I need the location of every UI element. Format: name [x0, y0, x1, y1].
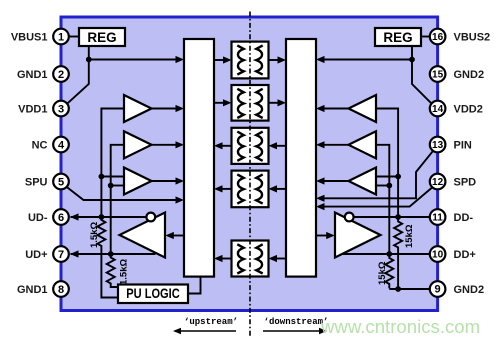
wire DD+ sense line B2 — [376, 145, 389, 254]
wire buffer A3 out to left bar — [152, 177, 185, 184]
PU LOGIC block — [118, 285, 188, 304]
transformer T5 — [232, 241, 269, 277]
resistor R1 1.5k — [97, 217, 118, 298]
wire buffer A2 out to left bar — [152, 141, 185, 148]
wire UD- sense line A — [101, 109, 124, 218]
receiver B1 — [349, 95, 377, 122]
svg-text:SPD: SPD — [454, 177, 477, 189]
pin 6 — [53, 209, 69, 225]
svg-text:1: 1 — [58, 32, 64, 44]
node B3 in2 junction — [386, 183, 392, 189]
wire left bar to driver A4 — [165, 232, 184, 239]
wire buffer A3 input 1 — [101, 176, 124, 178]
svg-text:15kΩ: 15kΩ — [404, 224, 415, 248]
receiver B2 — [349, 131, 377, 158]
pin 15 — [430, 66, 446, 82]
node UD+ junction — [108, 251, 114, 257]
svg-text:VBUS2: VBUS2 — [454, 32, 491, 44]
svg-text:15: 15 — [432, 70, 444, 81]
pin 7 — [53, 246, 69, 262]
regulator REG1 — [69, 28, 125, 46]
wire GND2 to resistors — [389, 288, 430, 290]
encoder/decoder bar right — [286, 39, 316, 277]
wire REG2 to right bar — [316, 56, 412, 63]
node UD- junction — [99, 214, 105, 220]
svg-text:NC: NC — [32, 140, 48, 152]
pin 10 — [430, 246, 446, 262]
resistor R2 1.5k — [107, 254, 118, 287]
svg-text:VDD2: VDD2 — [454, 104, 483, 116]
svg-text:REG: REG — [87, 30, 116, 45]
wire right bar to driver B4 — [316, 232, 335, 239]
node B3 in1 junction — [395, 174, 401, 180]
node GND2 junction — [395, 286, 401, 292]
svg-text:VDD1: VDD1 — [18, 104, 47, 116]
wire REG1 stem — [67, 46, 89, 104]
wire buffer A1 out to left bar — [152, 105, 185, 112]
svg-text:16: 16 — [432, 32, 444, 43]
svg-text:2: 2 — [58, 69, 64, 81]
svg-text:8: 8 — [58, 284, 64, 296]
wire buffer A3 input 2 — [111, 185, 124, 187]
svg-text:‘downstream’: ‘downstream’ — [264, 317, 329, 327]
wire right bar to transformer T3 — [269, 142, 287, 149]
pin 11 — [430, 209, 446, 225]
buffer A3 — [124, 168, 152, 195]
svg-text:www.cntronics.com: www.cntronics.com — [320, 316, 480, 337]
buffer A1 — [124, 95, 152, 122]
wire DD- output — [354, 216, 430, 218]
pin 12 — [430, 174, 446, 190]
transformer T4 — [232, 171, 269, 208]
resistor R4 15k — [385, 254, 393, 288]
svg-text:6: 6 — [58, 212, 64, 224]
receiver B3 — [349, 168, 377, 195]
svg-text:VBUS1: VBUS1 — [11, 32, 48, 44]
wire left bar to transformer T1 — [214, 56, 232, 63]
transformer T1 — [232, 42, 269, 79]
svg-text:GND1: GND1 — [17, 69, 48, 81]
pin 3 — [53, 101, 69, 117]
wire SPD to right bar — [316, 187, 433, 211]
isolation barrier dashed line — [249, 12, 251, 337]
svg-text:DD+: DD+ — [454, 249, 476, 261]
wire PIN to right bar — [316, 150, 434, 202]
node A3 in2 junction — [108, 183, 114, 189]
svg-text:13: 13 — [432, 140, 444, 151]
svg-text:3: 3 — [58, 104, 64, 116]
wire transformer T1 to right bar — [269, 56, 287, 63]
node REG2 junction — [409, 57, 415, 63]
svg-text:SPU: SPU — [25, 177, 48, 189]
svg-text:11: 11 — [432, 213, 443, 224]
pin 1 — [53, 29, 69, 45]
transformer T2 — [232, 85, 269, 121]
wire right bar to transformer T4 — [269, 185, 287, 192]
arrow downstream — [263, 328, 327, 334]
pin 2 — [53, 66, 69, 82]
wire REG2 stem — [412, 46, 432, 104]
svg-text:UD-: UD- — [28, 212, 48, 224]
svg-text:15kΩ: 15kΩ — [377, 261, 388, 285]
svg-text:PIN: PIN — [454, 140, 472, 152]
wire right bar to transformer T5 — [269, 255, 287, 262]
driver B4 bubble — [345, 213, 354, 222]
svg-text:GND1: GND1 — [17, 284, 48, 296]
svg-text:1.5kΩ: 1.5kΩ — [89, 222, 100, 248]
arrow upstream — [173, 328, 236, 334]
wire receiver B1 out to right bar — [316, 105, 349, 112]
pin 9 — [430, 281, 446, 297]
wire left bar to transformer T2 — [214, 99, 232, 106]
wire transformer T5 to left bar — [214, 255, 232, 262]
wire UD+ output — [70, 250, 156, 257]
driver A4 inverting — [120, 213, 166, 258]
svg-text:PU LOGIC: PU LOGIC — [126, 286, 180, 301]
node DD- junction — [395, 214, 401, 220]
svg-text:12: 12 — [432, 177, 444, 188]
svg-text:GND2: GND2 — [454, 284, 485, 296]
wire receiver B3 out to right bar — [316, 177, 349, 184]
driver B4 inverting — [335, 213, 381, 258]
svg-text:4: 4 — [58, 140, 65, 152]
encoder/decoder bar left — [184, 39, 214, 277]
svg-text:GND2: GND2 — [454, 69, 485, 81]
transformer T3 — [232, 128, 269, 164]
svg-text:7: 7 — [58, 249, 64, 261]
node DD+ junction — [386, 251, 392, 257]
pin 13 — [430, 137, 446, 153]
svg-text:1.5kΩ: 1.5kΩ — [119, 259, 130, 285]
svg-text:9: 9 — [435, 284, 441, 296]
wire transformer T3 to left bar — [214, 142, 232, 149]
node A3 in1 junction — [99, 174, 105, 180]
svg-text:10: 10 — [432, 250, 444, 261]
svg-text:‘upstream’: ‘upstream’ — [184, 317, 238, 327]
wire DD+ output — [342, 253, 430, 255]
wire REG1 to left bar — [89, 56, 184, 63]
wire UD+ sense line B — [111, 145, 124, 254]
IC body U1 — [61, 17, 438, 311]
wire receiver B3 input 1 — [376, 176, 398, 178]
pin 16 — [430, 29, 446, 45]
svg-text:REG: REG — [383, 30, 412, 45]
svg-text:DD-: DD- — [454, 212, 474, 224]
regulator REG2 — [375, 28, 430, 46]
wire SPU to left bar — [66, 187, 184, 204]
svg-text:UD+: UD+ — [25, 249, 47, 261]
wire PU LOGIC to left bar — [188, 277, 201, 294]
wire receiver B2 out to right bar — [316, 141, 349, 148]
wire transformer T4 to left bar — [214, 185, 232, 192]
pin 4 — [53, 137, 69, 153]
resistor R3 15k — [394, 217, 402, 289]
wire receiver B3 input 2 — [376, 185, 389, 187]
wire DD- sense line A2 — [376, 109, 398, 218]
pin 14 — [430, 101, 446, 117]
pin 8 — [53, 281, 69, 297]
pin 5 — [53, 174, 69, 190]
svg-text:5: 5 — [58, 177, 64, 189]
svg-text:14: 14 — [432, 104, 444, 115]
node REG1 junction — [86, 57, 92, 63]
driver A4 bubble — [146, 213, 155, 222]
wire transformer T2 to right bar — [269, 99, 287, 106]
buffer A2 — [124, 131, 152, 158]
wire UD- output — [70, 213, 147, 220]
